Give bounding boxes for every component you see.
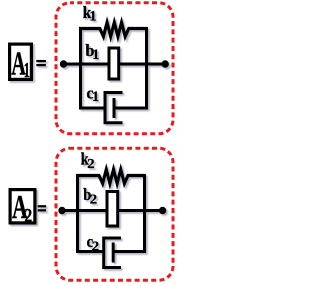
svg-text:2: 2 — [87, 158, 94, 172]
svg-text:1: 1 — [92, 89, 99, 105]
svg-text:2: 2 — [90, 193, 97, 207]
svg-text:1: 1 — [89, 8, 96, 24]
svg-text:1: 1 — [24, 59, 30, 82]
svg-text:2: 2 — [24, 204, 32, 226]
svg-text:2: 2 — [92, 240, 99, 254]
svg-text:1: 1 — [92, 46, 99, 62]
